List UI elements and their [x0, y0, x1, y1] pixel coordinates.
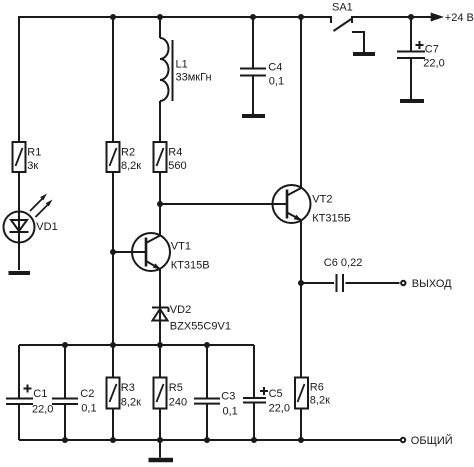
- svg-text:C6 0,22: C6 0,22: [324, 257, 363, 269]
- svg-text:240: 240: [169, 396, 187, 408]
- svg-text:C3: C3: [221, 391, 235, 403]
- ground main: [149, 440, 174, 460]
- wire R2 branch vertical top: [112, 17, 114, 142]
- svg-text:ВЫХОД: ВЫХОД: [412, 278, 452, 290]
- node junction dots mid rail: [62, 342, 68, 348]
- LED VD1: [4, 194, 58, 243]
- switch SA1: [331, 2, 375, 54]
- svg-text:22,0: 22,0: [423, 58, 444, 70]
- wire VT1 emitter down: [159, 269, 161, 345]
- ground under C4: [242, 114, 265, 118]
- zener VD2: [152, 304, 231, 333]
- node +24 B arrow: [431, 12, 474, 24]
- svg-text:C5: C5: [269, 388, 283, 400]
- node collector junction: [157, 201, 163, 207]
- svg-text:ОБЩИЙ: ОБЩИЙ: [411, 434, 453, 447]
- svg-text:22,0: 22,0: [32, 403, 53, 415]
- wire L1 top: [159, 17, 161, 38]
- svg-text:BZX55C9V1: BZX55C9V1: [170, 320, 231, 332]
- svg-text:8,2к: 8,2к: [121, 396, 141, 408]
- inductor L1: [160, 38, 212, 101]
- transistor VT2: [273, 185, 352, 224]
- capacitor C7: [397, 17, 445, 99]
- svg-text:33мкГн: 33мкГн: [176, 72, 212, 84]
- capacitor C3: [194, 345, 238, 440]
- svg-text:R5: R5: [169, 382, 183, 394]
- wire VT2 collector vertical: [300, 17, 302, 188]
- svg-text:SA1: SA1: [332, 2, 353, 14]
- wire top rail right segment: [352, 16, 432, 18]
- svg-text:R2: R2: [121, 146, 135, 158]
- node ВЫХОД terminal: [401, 278, 452, 290]
- transistor VT1: [113, 233, 210, 271]
- svg-text:R3: R3: [121, 382, 135, 394]
- svg-text:0,1: 0,1: [269, 76, 284, 88]
- svg-text:+24 В: +24 В: [445, 12, 474, 24]
- svg-text:КТ315В: КТ315В: [171, 259, 210, 271]
- wire mid rail: [19, 344, 254, 346]
- svg-text:C1: C1: [33, 388, 47, 400]
- node base junction VT1: [110, 249, 116, 255]
- node junction dots top rail: [110, 14, 116, 20]
- svg-text:3к: 3к: [27, 160, 38, 172]
- svg-text:8,2к: 8,2к: [310, 394, 330, 406]
- svg-text:R1: R1: [27, 146, 41, 158]
- node emitter junction C6: [298, 280, 304, 286]
- svg-text:VD2: VD2: [170, 304, 191, 316]
- resistor R3: [107, 345, 142, 440]
- svg-text:R6: R6: [310, 382, 324, 394]
- svg-text:R4: R4: [168, 146, 182, 158]
- resistor R6: [295, 378, 330, 441]
- svg-text:C2: C2: [80, 388, 94, 400]
- wire R1 branch vertical: [18, 17, 20, 142]
- wire R4 to VT1 collector: [159, 172, 161, 236]
- svg-text:C4: C4: [268, 62, 282, 74]
- wire top rail left segment: [19, 16, 331, 18]
- svg-text:0,1: 0,1: [81, 403, 96, 415]
- wire VT2 emitter down to R6: [300, 220, 302, 377]
- svg-text:22,0: 22,0: [269, 402, 290, 414]
- svg-text:КТ315Б: КТ315Б: [312, 212, 351, 224]
- wire L1 to R4: [159, 101, 161, 142]
- ground under VD1: [9, 271, 31, 275]
- node ОБЩИЙ terminal: [401, 434, 453, 447]
- resistor R1: [13, 142, 42, 172]
- ground under C7: [400, 99, 424, 103]
- svg-text:L1: L1: [176, 58, 188, 70]
- svg-text:8,2к: 8,2к: [121, 160, 141, 172]
- svg-text:VT1: VT1: [171, 240, 191, 252]
- capacitor C2: [52, 345, 97, 440]
- wire collector to VT2 base: [160, 203, 287, 205]
- svg-text:VD1: VD1: [36, 221, 57, 233]
- capacitor C1: [6, 345, 53, 440]
- svg-text:VT2: VT2: [312, 193, 332, 205]
- capacitor C6: [301, 257, 400, 292]
- capacitor C5: [243, 345, 290, 440]
- node junction dots bottom rail: [62, 437, 68, 443]
- capacitor C4: [240, 17, 284, 114]
- wire R1 to VD1: [18, 172, 20, 270]
- resistor R5: [154, 345, 188, 440]
- svg-text:560: 560: [168, 160, 186, 172]
- wire bottom rail: [19, 439, 400, 441]
- wire R2 to mid rail: [112, 172, 114, 345]
- svg-text:C7: C7: [425, 43, 439, 55]
- resistor R4: [154, 142, 187, 172]
- resistor R2: [107, 142, 142, 172]
- svg-text:0,1: 0,1: [223, 405, 238, 417]
